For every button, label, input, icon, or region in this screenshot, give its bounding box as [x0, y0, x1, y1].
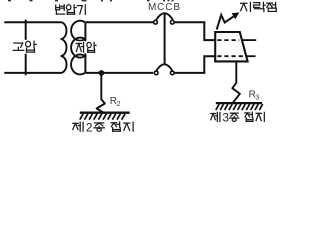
svg-text:MCCB: MCCB — [148, 2, 181, 13]
svg-text:2: 2 — [117, 101, 121, 108]
svg-text:3: 3 — [222, 111, 229, 125]
svg-text:3: 3 — [255, 94, 259, 101]
svg-text:2: 2 — [86, 120, 93, 132]
